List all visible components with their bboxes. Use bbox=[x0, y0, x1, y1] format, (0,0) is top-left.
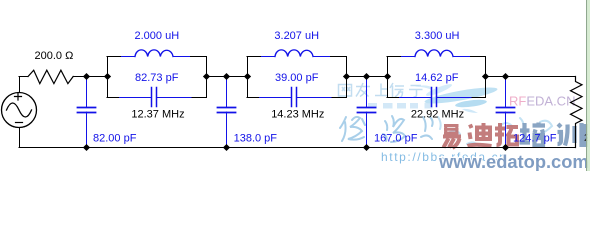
tank1 bottom black stubs bbox=[107, 97, 206, 99]
shunt capacitor C7 124.7 pF bbox=[497, 77, 515, 148]
right window border bbox=[586, 0, 590, 171]
wm faint text "网友上传于" bbox=[339, 83, 423, 98]
source V1 stubs bbox=[19, 77, 21, 148]
capacitor C4 wires bbox=[260, 97, 332, 99]
svg-text:3.300 uH: 3.300 uH bbox=[415, 30, 460, 42]
tank3 right side bbox=[485, 57, 487, 98]
wire: top rail source to R1 bbox=[19, 76, 28, 78]
inductor L1 humps bbox=[135, 50, 173, 57]
tank1 top black stubs bbox=[107, 56, 206, 58]
wm blue text 培训 bbox=[520, 123, 586, 148]
capacitor C2 wires bbox=[120, 97, 192, 99]
tank 2: L2 C4 parallel loop bbox=[247, 50, 347, 107]
char yi bbox=[443, 126, 461, 149]
tank1 left side bbox=[107, 57, 109, 98]
tank2 left side bbox=[247, 57, 249, 98]
wm swoosh logo bbox=[415, 82, 498, 113]
watermark layer bbox=[339, 82, 589, 172]
cursive char bo bbox=[383, 116, 405, 142]
AC source V1 circle bbox=[2, 93, 37, 128]
svg-text:12.37 MHz: 12.37 MHz bbox=[131, 108, 184, 120]
svg-text:3.207 uH: 3.207 uH bbox=[274, 30, 319, 42]
wire: top rail R1 to tank1 bbox=[73, 76, 107, 78]
capacitor C6 wires bbox=[400, 97, 472, 99]
shunt capacitor C3 138.0 pF bbox=[218, 77, 236, 148]
inductor L3 leads bbox=[402, 56, 470, 58]
circuit layer bbox=[2, 50, 583, 151]
inductor L3 humps bbox=[415, 50, 453, 57]
tank 3: L3 C6 parallel loop bbox=[387, 50, 486, 107]
tank3 left side bbox=[387, 57, 389, 98]
tank 1: L1 C2 parallel loop bbox=[107, 50, 207, 107]
cursive char wei bbox=[340, 117, 365, 141]
svg-text:2.000 uH: 2.000 uH bbox=[135, 30, 180, 42]
capacitor C6 plates bbox=[432, 88, 437, 107]
resistor R1 200 ohm zigzag bbox=[28, 70, 73, 83]
tank2 bottom black stubs bbox=[247, 97, 346, 99]
load resistor R2 zigzag vertical bbox=[571, 77, 583, 148]
shunt capacitor C1 82.00 pF bbox=[78, 77, 96, 148]
svg-text:200.0 Ω: 200.0 Ω bbox=[35, 50, 74, 62]
inductor L2 leads bbox=[262, 56, 330, 58]
svg-text:124.7 pF: 124.7 pF bbox=[513, 132, 557, 144]
wm red text 易迪拓 bbox=[443, 123, 518, 148]
tank3 top black stubs bbox=[387, 56, 486, 58]
cursive char partial right bbox=[421, 117, 433, 139]
label layer bbox=[35, 30, 591, 144]
tank1 right side bbox=[206, 57, 208, 98]
svg-text:82.73 pF: 82.73 pF bbox=[135, 72, 179, 84]
svg-text:14.62 pF: 14.62 pF bbox=[415, 72, 459, 84]
char di bbox=[468, 123, 492, 146]
tank3 bottom black stubs bbox=[387, 97, 486, 99]
junction dots (diamonds) top rail bbox=[83, 73, 509, 80]
wm cursive brush strokes light blue bbox=[340, 116, 552, 146]
plus sign bbox=[15, 93, 22, 100]
char pei bbox=[520, 123, 546, 146]
inductor L1 leads bbox=[122, 56, 190, 58]
cursive splash near red bbox=[438, 117, 479, 146]
svg-text:RFEDA.CN: RFEDA.CN bbox=[509, 94, 575, 109]
wire: bottom rail bbox=[19, 147, 576, 149]
capacitor C4 plates bbox=[292, 88, 297, 107]
capacitor C2 plates bbox=[152, 88, 157, 107]
shunt capacitor C5 167.0 pF bbox=[358, 77, 376, 148]
svg-text:22.92 MHz: 22.92 MHz bbox=[411, 108, 464, 120]
svg-text:www.edatop.com: www.edatop.com bbox=[438, 151, 589, 171]
wire: top rail tank3 to load bbox=[486, 76, 576, 78]
junction dots (diamonds) bottom rail bbox=[83, 144, 509, 151]
wm dashed squares bbox=[368, 103, 433, 109]
tank2 right side bbox=[346, 57, 348, 98]
svg-text:14.23 MHz: 14.23 MHz bbox=[271, 108, 324, 120]
svg-text:167.0 pF: 167.0 pF bbox=[374, 133, 418, 145]
svg-text:39.00 pF: 39.00 pF bbox=[275, 72, 319, 84]
cursive splash over blue chars bbox=[500, 118, 552, 134]
tank2 top black stubs bbox=[247, 56, 346, 58]
sine wave inside source bbox=[7, 103, 32, 117]
char tuo bbox=[495, 123, 518, 145]
inductor L2 humps bbox=[275, 50, 313, 57]
wire: top rail tank2 to tank3 bbox=[346, 76, 387, 78]
svg-text:138.0 pF: 138.0 pF bbox=[234, 133, 278, 145]
wire: top rail tank1 to tank2 bbox=[206, 76, 247, 78]
minus sign bbox=[16, 122, 23, 124]
svg-text:82.00 pF: 82.00 pF bbox=[93, 133, 137, 145]
char xun bbox=[558, 123, 586, 147]
